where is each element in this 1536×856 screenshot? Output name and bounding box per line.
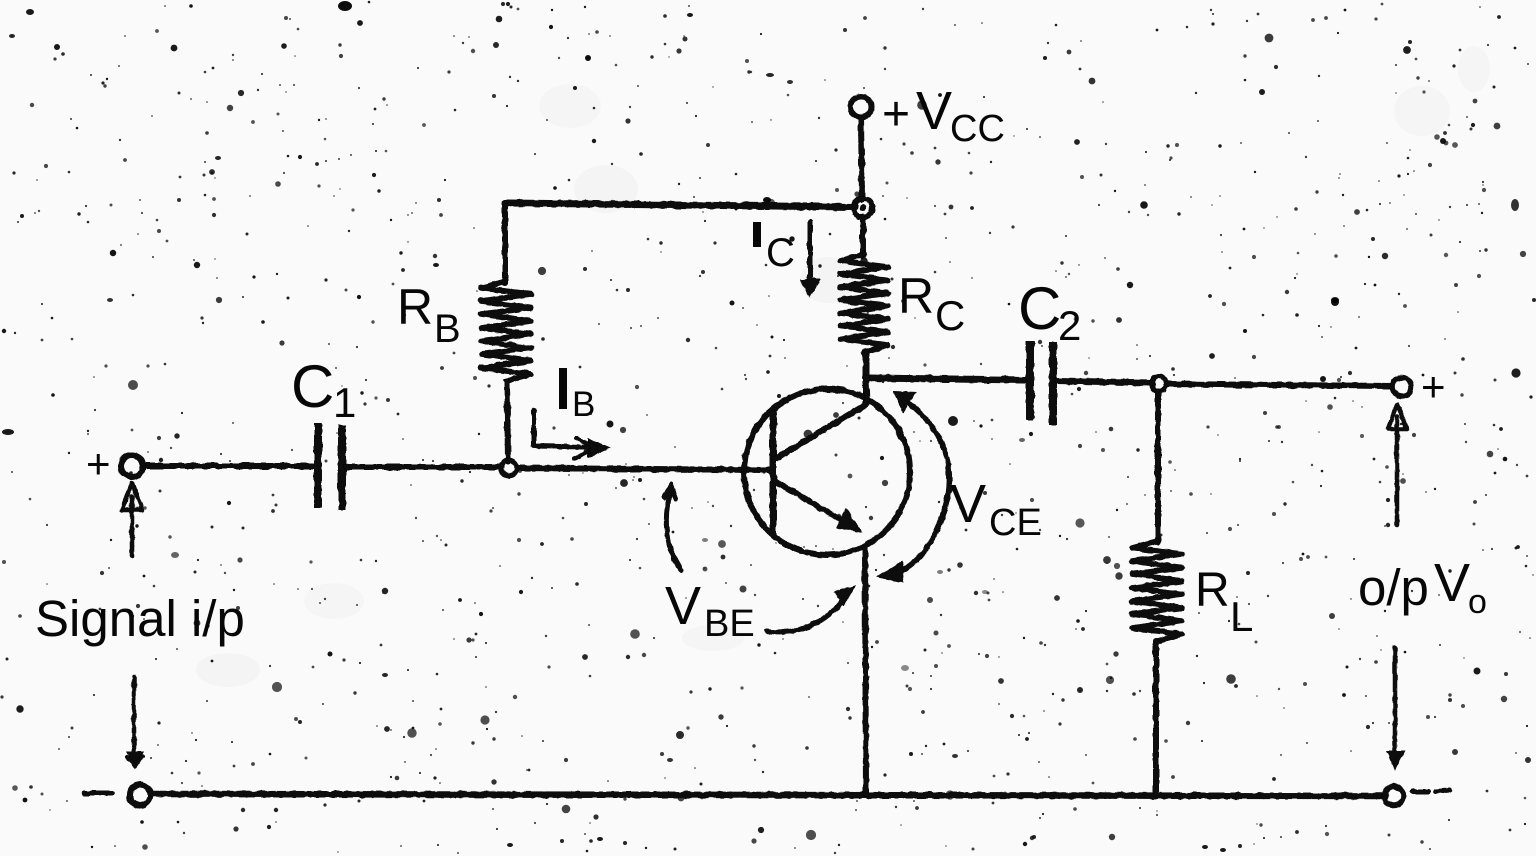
svg-text:B: B bbox=[434, 307, 461, 351]
svg-text:R: R bbox=[1195, 564, 1230, 617]
label C2 bbox=[1018, 275, 1081, 349]
resistor RB bbox=[481, 281, 531, 381]
wire junction to RC bbox=[860, 217, 866, 256]
svg-text:C: C bbox=[935, 292, 965, 339]
terminal input bottom bbox=[130, 785, 151, 806]
svg-text:Signal i/p: Signal i/p bbox=[35, 590, 245, 647]
resistor RL bbox=[1132, 541, 1182, 641]
svg-text:o: o bbox=[1468, 583, 1487, 621]
transistor Q1 collector lead bbox=[775, 378, 867, 459]
svg-text:+: + bbox=[86, 440, 111, 487]
terminal signal input top bbox=[121, 455, 143, 477]
svg-text:V: V bbox=[665, 576, 701, 636]
svg-text:C: C bbox=[291, 353, 334, 420]
svg-text:2: 2 bbox=[1058, 302, 1081, 349]
transistor Q1 body bbox=[744, 389, 910, 555]
label minus input bottom bbox=[84, 791, 112, 796]
label IC bbox=[757, 222, 795, 275]
svg-text:V: V bbox=[1434, 553, 1470, 613]
arrow IB bent bbox=[534, 410, 610, 459]
arrow VBE right curved bbox=[767, 585, 856, 632]
arrow signal input up bbox=[122, 483, 142, 556]
wire top rail to RB branch bbox=[505, 203, 855, 207]
arrow output up bbox=[1388, 404, 1407, 525]
svg-text:V: V bbox=[950, 474, 986, 534]
label VBE bbox=[665, 576, 755, 645]
svg-text:V: V bbox=[916, 81, 952, 141]
label VCE bbox=[950, 474, 1042, 544]
transistor Q1 emitter lead arrow bbox=[775, 481, 863, 533]
terminal output top bbox=[1393, 378, 1412, 397]
wire collector to C2 bbox=[866, 378, 1026, 380]
node output junction bbox=[1152, 377, 1167, 392]
svg-text:1: 1 bbox=[333, 379, 356, 426]
svg-text:+: + bbox=[882, 88, 910, 141]
label IB bbox=[563, 368, 595, 424]
node top junction (Vcc/RB/RC) bbox=[854, 199, 873, 218]
label o/p Vo bbox=[1358, 553, 1487, 621]
capacitor C1 bbox=[318, 423, 342, 510]
wire RB branch vertical bbox=[502, 203, 508, 283]
label RC bbox=[898, 268, 965, 339]
wire base node to transistor base bbox=[517, 468, 772, 470]
wire bottom rail bbox=[151, 794, 1386, 796]
wire C1 to base node bbox=[346, 464, 501, 470]
wire RL branch bbox=[1155, 391, 1161, 542]
label minus output dashes bbox=[1412, 790, 1450, 792]
svg-text:C: C bbox=[766, 231, 795, 275]
svg-text:R: R bbox=[898, 268, 934, 324]
arrow VBE left curved bbox=[664, 485, 681, 570]
svg-text:o/p: o/p bbox=[1358, 559, 1429, 616]
label RL bbox=[1195, 564, 1253, 640]
arrow output down bbox=[1386, 648, 1405, 770]
arrow IC down bbox=[799, 222, 821, 298]
wire junction to output terminal bbox=[1167, 384, 1392, 386]
wire Vcc terminal to top junction bbox=[861, 118, 862, 200]
wire RC to collector bbox=[863, 352, 869, 402]
wire C2 to output junction bbox=[1057, 381, 1152, 383]
wire input terminal to C1 bbox=[144, 463, 313, 469]
resistor RC bbox=[840, 254, 888, 352]
svg-text:BE: BE bbox=[704, 603, 755, 645]
svg-text:L: L bbox=[1230, 593, 1253, 640]
terminal output bottom bbox=[1385, 787, 1404, 806]
transistor Q1 base bar bbox=[770, 413, 777, 534]
wire RB to base node bbox=[507, 381, 508, 461]
svg-text:C: C bbox=[1018, 275, 1061, 342]
svg-text:+: + bbox=[1421, 363, 1446, 410]
node base junction bbox=[501, 460, 517, 476]
arrow signal input down bbox=[126, 677, 144, 769]
label +Vcc bbox=[882, 81, 1005, 150]
svg-text:R: R bbox=[397, 279, 433, 335]
label C1 bbox=[291, 353, 356, 426]
capacitor C2 bbox=[1030, 341, 1053, 425]
arrow VCE curved bbox=[876, 391, 949, 583]
label RB bbox=[397, 279, 461, 351]
svg-text:B: B bbox=[572, 385, 595, 424]
svg-text:CC: CC bbox=[950, 108, 1005, 150]
wire emitter to bottom rail bbox=[865, 546, 866, 794]
svg-text:CE: CE bbox=[989, 502, 1042, 544]
wire RL to bottom rail bbox=[1153, 641, 1159, 794]
terminal +Vcc bbox=[851, 97, 872, 118]
